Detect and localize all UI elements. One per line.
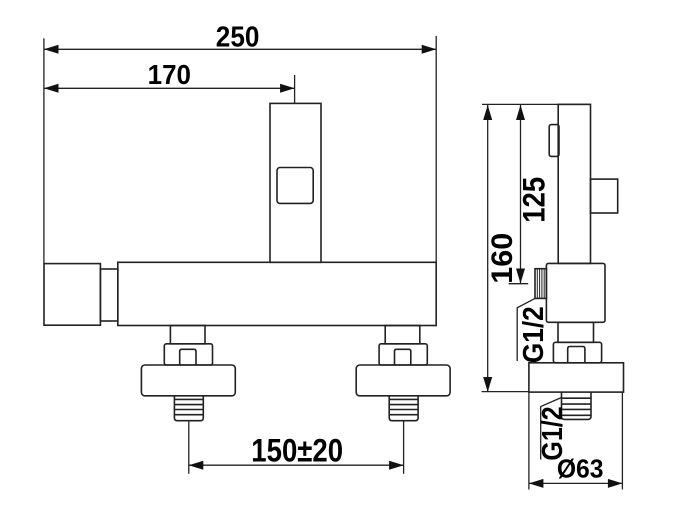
side view: clip detail	[549, 125, 559, 157]
side view: nipple thread lines	[562, 398, 592, 415]
left mount: neck	[170, 326, 205, 344]
left mount: nut	[164, 344, 212, 365]
arrow 125 top	[516, 105, 525, 120]
side view: spout stub right	[591, 179, 618, 213]
arrow 125 bottom	[516, 269, 525, 284]
arrow 250 right	[422, 45, 437, 54]
right mount: nut	[379, 344, 427, 365]
side view: flange	[529, 363, 624, 392]
side view: shower thread lines	[537, 269, 544, 299]
arrow 160 bottom	[483, 377, 492, 392]
side view: valve body block	[546, 263, 605, 322]
right mount: threaded nipple	[389, 396, 418, 421]
side view: neck	[558, 322, 594, 342]
front view: handle collar	[100, 269, 117, 321]
svg-text:G1/2: G1/2	[537, 406, 569, 460]
left mount: threaded nipple	[174, 396, 203, 421]
side view: shower thread stub	[535, 269, 546, 299]
arrow 170 left	[44, 84, 59, 93]
extension line left (x=44)	[43, 38, 45, 263]
arrow Ø63 left	[529, 479, 544, 488]
svg-text:170: 170	[148, 59, 191, 90]
right mount: thread lines	[389, 399, 418, 414]
Ø63 extension right	[621, 392, 623, 489]
front view: main body	[118, 262, 436, 325]
svg-text:G1/2: G1/2	[518, 306, 550, 363]
extension line spout center (x=294.6)	[294, 75, 296, 103]
side view: top extension line	[482, 103, 591, 105]
left mount: thread lines	[174, 399, 203, 414]
front view: handle knob	[44, 264, 100, 326]
arrow 150 left	[189, 461, 204, 470]
tick at 125 bottom	[509, 283, 529, 285]
svg-text:160: 160	[486, 233, 519, 284]
right mount: neck	[385, 326, 420, 344]
arrow Ø63 right	[608, 479, 623, 488]
svg-text:150±20: 150±20	[251, 432, 343, 468]
leader upper G1/2	[517, 298, 535, 361]
svg-text:Ø63: Ø63	[557, 454, 604, 484]
arrow 160 top	[483, 105, 492, 120]
dim line 170	[44, 87, 295, 89]
tick at 160 bottom	[482, 391, 529, 393]
front view: spout window square	[277, 168, 313, 204]
dim line 160 vertical	[487, 105, 489, 392]
right mount: tab	[395, 349, 411, 365]
dim line Ø63	[529, 482, 623, 484]
arrow 170 right	[280, 84, 295, 93]
dim line 150±20	[189, 464, 404, 466]
right mount: center line	[403, 421, 405, 474]
svg-text:250: 250	[216, 22, 260, 54]
extension line right (x=436)	[435, 36, 437, 262]
left mount: eccentric flange	[141, 365, 235, 396]
left mount: tab	[180, 349, 196, 365]
side view: threaded nipple	[562, 392, 592, 419]
left mount: center line	[188, 421, 190, 474]
front view: spout column	[270, 103, 321, 262]
right mount: eccentric flange	[356, 365, 450, 396]
side view: nut	[553, 342, 601, 363]
Ø63 extension left	[528, 392, 530, 489]
side view: tab	[568, 347, 585, 363]
side view: column	[558, 104, 590, 263]
arrow 250 left	[44, 45, 59, 54]
dim line 125 vertical	[520, 105, 522, 284]
svg-text:125: 125	[516, 177, 552, 223]
dim line 250	[44, 48, 436, 50]
arrow 150 right	[389, 461, 404, 470]
leader lower G1/2	[541, 398, 562, 460]
